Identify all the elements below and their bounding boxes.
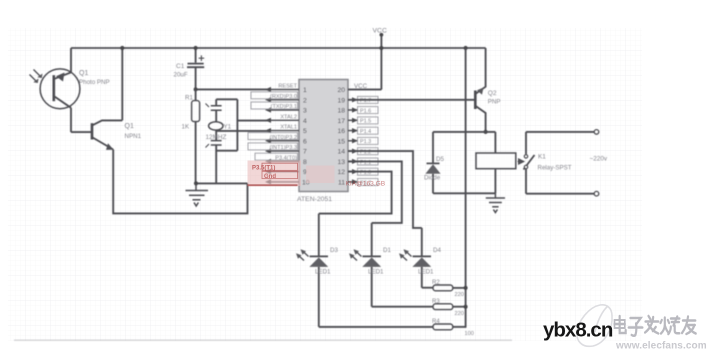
- MCU left label boxes: [248, 92, 298, 160]
- crystal Y1: [209, 122, 223, 141]
- svg-text:D3: D3: [330, 247, 338, 254]
- svg-text:NPN1: NPN1: [125, 133, 142, 140]
- resistor R1 1K: [192, 89, 200, 183]
- svg-text:K1: K1: [538, 154, 546, 161]
- watermark www.elecfans.com: [615, 341, 707, 352]
- light arrows into Q1: [30, 70, 43, 84]
- wire P1.2 to LED D3: [348, 151, 422, 228]
- label R4 100: [432, 319, 474, 337]
- wire P1.1 to LED D1: [348, 161, 402, 223]
- relay switch K1: [524, 132, 535, 194]
- capacitor c2 on crystal branch: [206, 99, 222, 122]
- svg-text:220: 220: [455, 311, 464, 317]
- glyph dian: [615, 316, 626, 333]
- wire VCC top rail: [71, 47, 486, 49]
- junction R2/bus: [464, 286, 468, 290]
- label K1 Relay-SPST: [538, 154, 572, 172]
- crystal circuit loop top: [216, 98, 237, 100]
- wire down to LED D2: [318, 214, 320, 257]
- junction R3/bus: [464, 305, 468, 309]
- MCU right label boxes: [358, 96, 379, 185]
- label Q1 NPN1: [125, 123, 142, 140]
- svg-text:Q1: Q1: [79, 70, 88, 77]
- watermark ybx8.cn: [543, 319, 613, 342]
- wire D1 to R3: [372, 306, 433, 308]
- wire Q1 collector to rail: [121, 48, 123, 120]
- svg-text:Y1: Y1: [224, 124, 232, 131]
- svg-text:~220v: ~220v: [590, 156, 608, 163]
- svg-text:20uF: 20uF: [174, 72, 188, 79]
- terminal top: [594, 130, 599, 135]
- LED D1: [362, 256, 381, 306]
- svg-text:11: 11: [338, 179, 345, 186]
- glyph zi: [629, 318, 643, 336]
- op-amp U1 ATEN-2051 MCU body: [299, 80, 348, 192]
- svg-text:www.elecfans.com: www.elecfans.com: [615, 341, 707, 352]
- svg-text:20: 20: [337, 87, 345, 94]
- relay K1 coil: [476, 153, 516, 169]
- label D1 LED1: [368, 247, 391, 276]
- capacitor c3 on crystal branch: [206, 141, 222, 184]
- svg-text:15: 15: [337, 138, 345, 145]
- svg-text:8: 8: [303, 159, 307, 166]
- diode D5: [425, 132, 440, 193]
- wire P1.0 to LED D2: [319, 172, 392, 214]
- svg-text:6: 6: [303, 138, 307, 145]
- svg-text:100: 100: [465, 331, 474, 337]
- wire XTAL1 to MCU: [216, 130, 268, 132]
- label D5 Diode: [424, 156, 444, 182]
- light arrows LED D4: [399, 249, 412, 260]
- wire P1.7 to Q2 base: [348, 99, 475, 101]
- svg-text:1: 1: [303, 87, 307, 94]
- MCU right pin stubs: [348, 90, 381, 182]
- label R2 220: [432, 280, 464, 298]
- ground symbol left: [186, 183, 209, 206]
- junction reset node: [194, 87, 198, 91]
- MCU left pin stubs: [268, 90, 299, 182]
- svg-text:Q1: Q1: [125, 123, 134, 130]
- wire coil bottom to ground: [494, 169, 496, 194]
- wire Q1 emitter down and across to ground corner: [113, 150, 247, 214]
- glyph fa: [645, 316, 658, 334]
- svg-text:PNP: PNP: [488, 99, 501, 106]
- resistor R4 100: [433, 324, 466, 330]
- resistor R3 220: [433, 304, 466, 310]
- junction rail/VCC: [379, 46, 383, 50]
- glyph shao: [661, 317, 680, 335]
- light arrows LED D1: [349, 249, 362, 260]
- svg-text:D5: D5: [436, 156, 444, 163]
- svg-text:12MHZ: 12MHZ: [206, 134, 227, 141]
- junction ground node: [194, 181, 198, 185]
- svg-text:3: 3: [303, 108, 307, 115]
- svg-text:16: 16: [337, 128, 345, 135]
- watermark 电子发烧友 hand-drawn glyphs: [615, 316, 696, 336]
- relay actuator arrow: [518, 159, 525, 164]
- label Y1 12MHZ: [206, 124, 232, 141]
- capacitor C1: [187, 48, 204, 89]
- MCU right pin numbers 20-11: [337, 87, 345, 186]
- wire switch to top terminal: [526, 131, 594, 133]
- svg-text:KIA@163.GB: KIA@163.GB: [346, 181, 386, 188]
- transistor Q1 Photo PNP: [40, 69, 80, 132]
- svg-text:14: 14: [337, 149, 345, 156]
- LED D4: [412, 256, 431, 287]
- glyph you: [682, 317, 696, 335]
- terminal bottom: [594, 191, 599, 196]
- label R3 220: [432, 299, 464, 317]
- light arrows LED D2: [296, 249, 309, 260]
- label ~220v: [590, 156, 608, 163]
- svg-text:LED1: LED1: [418, 269, 434, 276]
- label D4 LED1: [418, 247, 441, 276]
- svg-text:LED1: LED1: [368, 269, 384, 276]
- wire reset node to MCU pin1: [196, 88, 268, 90]
- svg-text:18: 18: [337, 108, 345, 115]
- svg-text:Photo PNP: Photo PNP: [79, 79, 110, 86]
- svg-text:17: 17: [337, 118, 345, 125]
- transistor Q2 PNP: [475, 48, 485, 132]
- label Q1 Photo PNP: [79, 70, 110, 86]
- svg-text:ybx8.cn: ybx8.cn: [543, 319, 613, 342]
- svg-text:RESET: RESET: [278, 84, 297, 90]
- resistor R2 220: [433, 285, 466, 291]
- svg-text:R3: R3: [432, 299, 440, 305]
- node VCC symbol: [348, 33, 383, 90]
- crystal loop bottom: [216, 150, 237, 152]
- svg-text:2: 2: [303, 97, 307, 104]
- svg-text:4: 4: [303, 118, 307, 125]
- svg-text:12: 12: [337, 169, 345, 176]
- bottom page edge smudge: [14, 339, 512, 341]
- elecfans leaf logo: [577, 305, 612, 346]
- svg-text:Relay-SPST: Relay-SPST: [538, 165, 572, 172]
- wire D5 anode to coil bottom: [433, 192, 495, 194]
- label C1 20uF: [174, 63, 188, 79]
- MCU right pin net labels P1.x: [360, 98, 371, 186]
- wire D2 to R4: [319, 326, 433, 328]
- wire switch to bottom terminal: [526, 193, 594, 195]
- wire down to LED D4: [421, 228, 423, 256]
- svg-text:220: 220: [455, 292, 464, 298]
- svg-text:5: 5: [303, 128, 307, 135]
- LED D2: [309, 256, 328, 327]
- label ATEN-2051: [297, 196, 332, 203]
- ground symbol relay: [486, 193, 505, 212]
- wire VCC bus down right side: [465, 48, 467, 328]
- label VCC top: [373, 28, 387, 35]
- junction rail/Q1 collector: [120, 46, 124, 50]
- ground rail near MCU: [196, 182, 248, 184]
- svg-text:R1: R1: [185, 95, 193, 102]
- MCU left pin labels: [270, 84, 298, 162]
- wire rail left drop to phototransistor: [70, 48, 72, 72]
- MCU right pin arrows: [352, 97, 358, 184]
- transistor Q1 NPN1: [92, 120, 122, 149]
- svg-text:R2: R2: [432, 280, 440, 286]
- svg-text:C1: C1: [176, 63, 185, 70]
- svg-text:Q2: Q2: [488, 90, 497, 97]
- junction Q2 collector node: [484, 130, 488, 134]
- wire XTAL2 to MCU: [237, 120, 268, 122]
- label R1 1K: [182, 95, 194, 131]
- svg-text:D4: D4: [433, 247, 441, 254]
- svg-text:VCC: VCC: [373, 28, 387, 35]
- label D2 LED1: [315, 247, 338, 276]
- crystal loop right branch: [236, 99, 238, 150]
- svg-text:ATEN-2051: ATEN-2051: [297, 196, 332, 203]
- svg-text:7: 7: [303, 149, 307, 156]
- junction rail/resistor bus: [464, 46, 468, 50]
- svg-text:1K: 1K: [182, 124, 190, 131]
- wire down to LED D1: [371, 223, 373, 256]
- wire D4 to R2: [422, 287, 433, 289]
- svg-text:13: 13: [337, 159, 345, 166]
- MCU left pin arrows: [265, 87, 271, 185]
- wire collector node horizontal: [433, 131, 495, 133]
- svg-text:19: 19: [337, 97, 345, 104]
- wire down to relay coil: [494, 132, 496, 153]
- wire photo emitter to Q1 NPN base: [71, 131, 91, 133]
- label Q2 PNP: [488, 90, 501, 106]
- svg-text:XTAL1: XTAL1: [280, 125, 297, 131]
- label VCC at pin 20: [354, 83, 368, 90]
- svg-text:R4: R4: [432, 319, 440, 325]
- junction rail/C1: [194, 46, 198, 50]
- MCU left pin numbers 1-10: [302, 87, 310, 186]
- svg-text:XTAL2: XTAL2: [280, 114, 297, 120]
- svg-text:Diode: Diode: [424, 175, 441, 182]
- svg-text:LED1: LED1: [315, 269, 331, 276]
- svg-text:D1: D1: [383, 247, 391, 254]
- red watermark block over MCU pins: [248, 161, 386, 188]
